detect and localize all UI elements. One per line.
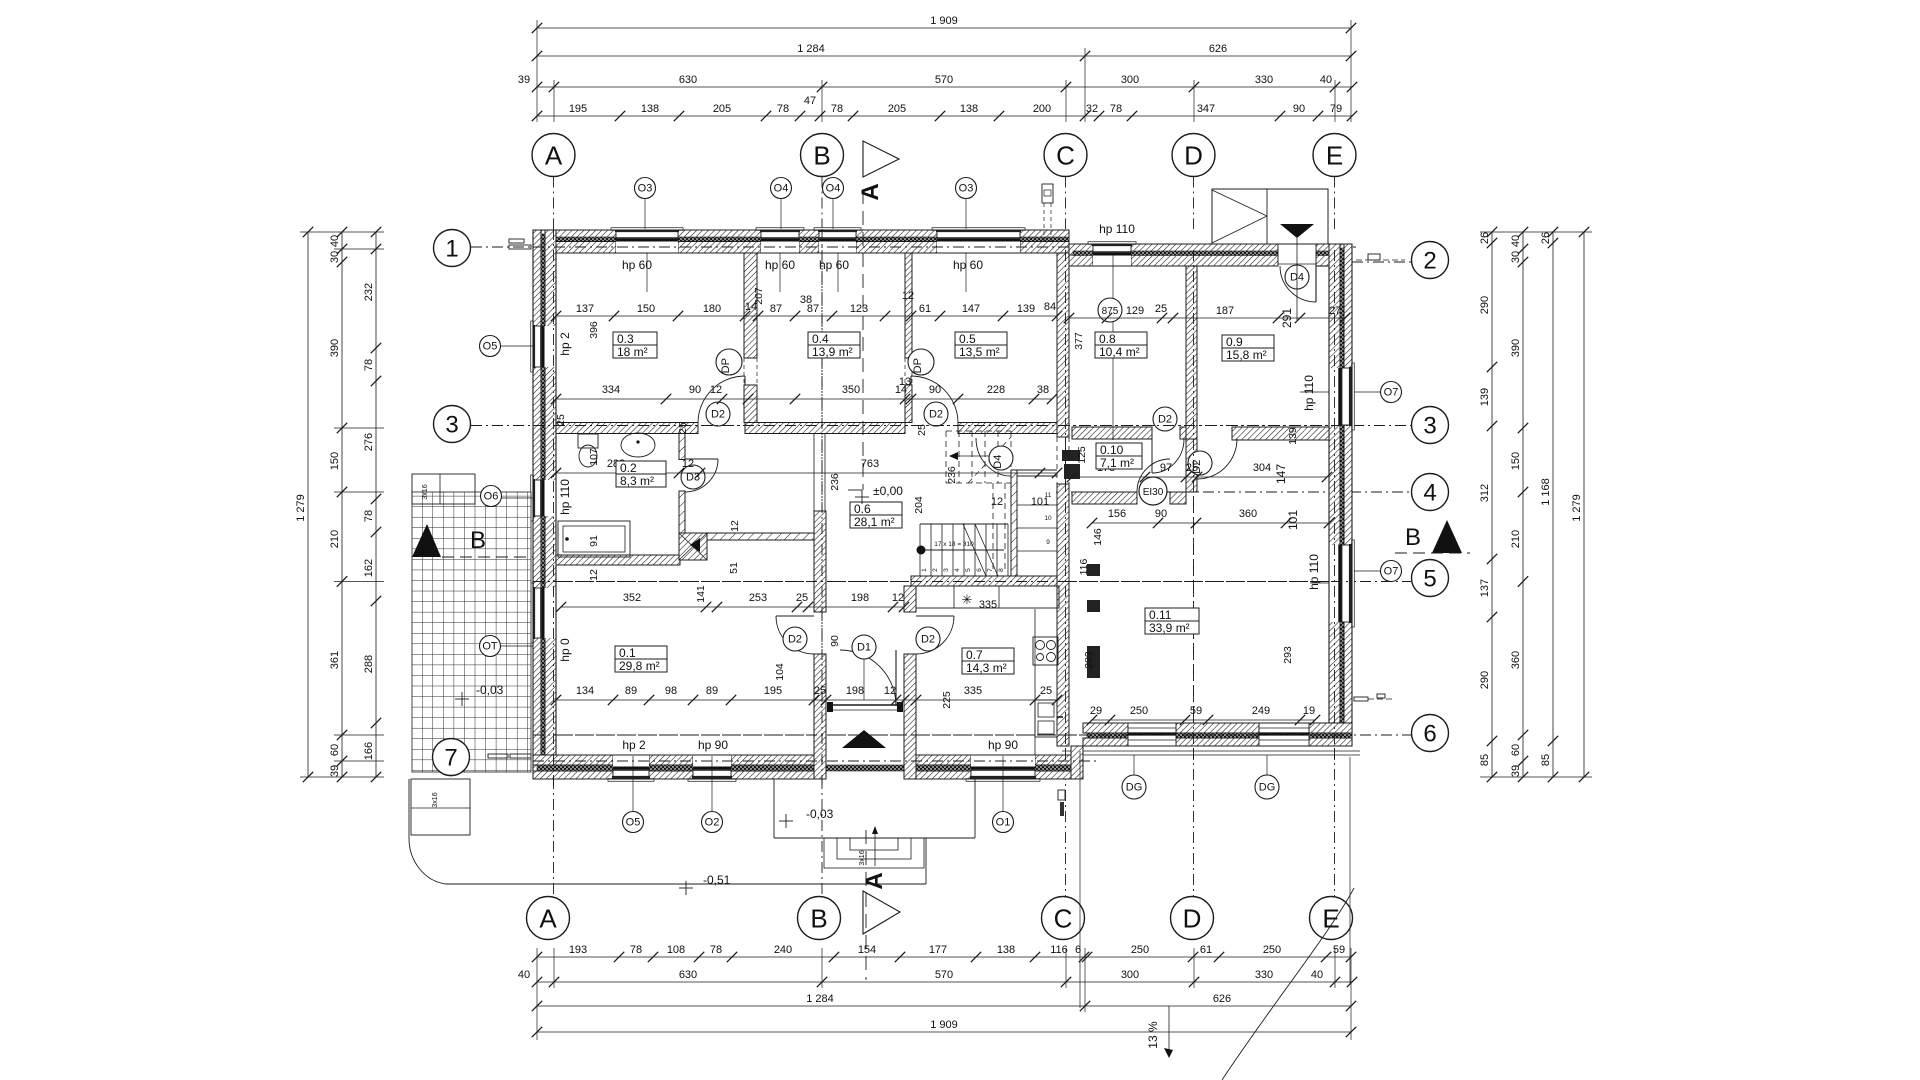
svg-text:198: 198 (846, 685, 864, 697)
exterior wall right (1329, 244, 1340, 746)
window label O2 bottom (702, 812, 723, 833)
corridor wall grid 3 (556, 423, 698, 434)
svg-text:-0,51: -0,51 (703, 873, 731, 887)
grid line 7 (470, 760, 1100, 762)
grid line 6 (520, 734, 1411, 736)
svg-text:5: 5 (965, 568, 972, 572)
svg-text:195: 195 (764, 685, 782, 697)
grid bubble 5 right (1412, 560, 1449, 597)
svg-text:18 m²: 18 m² (617, 345, 648, 359)
room 0.5 label (955, 332, 1007, 358)
svg-text:225: 225 (941, 691, 953, 709)
svg-text:78: 78 (831, 103, 843, 115)
door label D2 room 0.5 (924, 402, 948, 426)
grid line B (821, 253, 823, 896)
svg-text:137: 137 (1479, 579, 1491, 597)
door D2 room 0.5 leaf/swing (910, 376, 912, 422)
svg-text:360: 360 (1239, 508, 1257, 520)
boiler room 0.10 (1062, 450, 1080, 461)
svg-text:108: 108 (667, 944, 685, 956)
grid line D over (1193, 250, 1195, 760)
window label OT left (480, 636, 501, 657)
svg-text:D2: D2 (1158, 414, 1172, 426)
grid line 6 over (533, 734, 1352, 736)
svg-text:1 279: 1 279 (295, 494, 307, 522)
svg-text:98: 98 (665, 685, 677, 697)
svg-text:78: 78 (363, 359, 375, 371)
grid line D (1193, 265, 1195, 896)
svg-text:139: 139 (1017, 303, 1035, 315)
top dimension row total 1909 (537, 27, 1351, 29)
room 0.9 label (1222, 335, 1274, 361)
door D1 frame marks (827, 702, 833, 712)
section B marker right (1432, 520, 1462, 553)
svg-text:210: 210 (1510, 530, 1522, 548)
svg-text:3: 3 (1423, 413, 1436, 440)
vent marks top left corner (509, 239, 524, 243)
svg-text:291: 291 (1280, 308, 1294, 328)
svg-text:6: 6 (1423, 721, 1436, 748)
svg-text:90: 90 (1155, 508, 1167, 520)
svg-text:39: 39 (1510, 765, 1522, 777)
svg-text:123: 123 (850, 303, 868, 315)
room 0.2 label (616, 461, 666, 487)
svg-text:40: 40 (518, 969, 530, 981)
partition wall rooms 0.3/0.4 (744, 253, 757, 358)
svg-text:14,3 m²: 14,3 m² (966, 661, 1007, 675)
window label O6 left (481, 486, 502, 507)
svg-text:177: 177 (929, 944, 947, 956)
svg-text:352: 352 (623, 592, 641, 604)
exterior wall top A-C (533, 230, 616, 242)
svg-text:1: 1 (921, 568, 928, 572)
svg-text:0.3: 0.3 (617, 332, 634, 346)
grid line C stem (1065, 177, 1067, 230)
window label O1 bottom (993, 812, 1014, 833)
svg-text:205: 205 (713, 103, 731, 115)
svg-text:D: D (1183, 903, 1202, 933)
svg-text:198: 198 (851, 592, 869, 604)
svg-text:249: 249 (1252, 705, 1270, 717)
svg-text:3: 3 (445, 412, 458, 439)
room 0.10 label (1096, 443, 1142, 469)
svg-text:0.2: 0.2 (620, 461, 637, 475)
bathroom wall stub (679, 434, 685, 460)
svg-text:19: 19 (1303, 705, 1315, 717)
svg-text:101: 101 (1286, 510, 1300, 530)
room 0.3 label (613, 332, 657, 358)
svg-text:hp 110: hp 110 (558, 479, 572, 515)
svg-text:300: 300 (1121, 969, 1139, 981)
svg-text:90: 90 (689, 384, 701, 396)
door label D4 (1285, 265, 1309, 289)
svg-text:O5: O5 (483, 341, 498, 353)
svg-text:D1: D1 (857, 642, 871, 654)
svg-text:84: 84 (1044, 301, 1056, 313)
grid line 3 over (533, 425, 1352, 427)
terrace steps top (412, 474, 475, 504)
svg-text:250: 250 (1131, 944, 1149, 956)
door D2 room 0.9 leaf/swing (1196, 439, 1198, 479)
svg-text:0.11: 0.11 (1149, 608, 1172, 622)
window label O5 bottom (623, 812, 644, 833)
svg-text:33,9 m²: 33,9 m² (1149, 621, 1190, 635)
svg-text:0.5: 0.5 (959, 332, 976, 346)
svg-text:25: 25 (1186, 462, 1198, 474)
svg-text:334: 334 (602, 384, 620, 396)
svg-text:D4: D4 (992, 455, 1004, 469)
grid line 4 (1056, 491, 1411, 493)
svg-text:8: 8 (998, 568, 1005, 572)
grid line B stem (821, 177, 823, 230)
svg-text:A: A (857, 183, 884, 200)
door label D2 room 0.9 rotated (1188, 451, 1212, 475)
svg-text:195: 195 (569, 103, 587, 115)
svg-text:125: 125 (1076, 446, 1088, 464)
svg-text:6: 6 (976, 568, 983, 572)
grid line 1 over (533, 246, 1069, 248)
svg-text:570: 570 (935, 969, 953, 981)
door D1 leaf and swing (895, 650, 897, 706)
svg-text:hp 2: hp 2 (558, 332, 572, 356)
stairs lower flight (919, 524, 921, 576)
door label D2 hall kitchen (916, 627, 940, 651)
grid line A (553, 253, 555, 896)
svg-text:300: 300 (1121, 74, 1139, 86)
svg-text:25: 25 (677, 422, 689, 434)
exterior wall left (533, 230, 541, 779)
entrance arrow triangle (842, 730, 886, 748)
door D2 hall to room 0.1 leaf/swing (776, 615, 814, 617)
svg-text:59: 59 (1190, 705, 1202, 717)
svg-text:O7: O7 (1384, 566, 1399, 578)
svg-text:141: 141 (695, 585, 707, 603)
svg-text:10: 10 (1044, 515, 1052, 522)
door label EI30 (1139, 477, 1167, 505)
svg-text:1 168: 1 168 (1540, 478, 1552, 506)
section A marker top (862, 190, 864, 490)
door D2 room 0.3 leaf/swing (744, 376, 746, 422)
svg-text:139: 139 (1479, 388, 1491, 406)
svg-text:377: 377 (1073, 332, 1085, 350)
vent marks bottom left (488, 754, 508, 758)
svg-text:150: 150 (637, 303, 655, 315)
wall top of room 0.10 (1072, 427, 1152, 439)
svg-text:D: D (1184, 140, 1203, 170)
svg-text:116: 116 (1078, 558, 1090, 575)
grid line A stem (553, 177, 555, 230)
dim row hall stairs (561, 606, 904, 608)
svg-text:335: 335 (964, 685, 982, 697)
svg-text:12: 12 (682, 458, 694, 470)
bottom dimension row 40-630-570-300-330-40 (537, 981, 1352, 983)
svg-text:240: 240 (774, 944, 792, 956)
svg-text:89: 89 (706, 685, 718, 697)
door D4 leaf and swing (1315, 266, 1317, 302)
svg-text:276: 276 (363, 433, 375, 451)
svg-text:DG: DG (1126, 782, 1143, 794)
svg-text:40: 40 (1510, 235, 1522, 247)
window label O4 top (823, 178, 844, 199)
hall wall bottom stairs (911, 576, 1057, 586)
grid line E over (1334, 250, 1336, 760)
svg-text:12: 12 (588, 569, 600, 581)
svg-text:87: 87 (807, 303, 819, 315)
canopy outline (1212, 189, 1328, 244)
door label DG 1 (1133, 755, 1135, 775)
grid line B over (821, 229, 823, 790)
svg-text:61: 61 (919, 303, 931, 315)
svg-text:236: 236 (946, 466, 958, 484)
svg-text:25: 25 (1040, 685, 1052, 697)
svg-text:DP: DP (912, 358, 924, 373)
svg-text:7,1 m²: 7,1 m² (1100, 456, 1134, 470)
door label D2 hall left (783, 627, 807, 651)
grid line E stem (1334, 177, 1336, 230)
svg-text:187: 187 (1216, 305, 1234, 317)
svg-text:293: 293 (1282, 646, 1294, 664)
svg-text:D2: D2 (788, 634, 802, 646)
grid line E (1334, 265, 1336, 896)
svg-text:40: 40 (1320, 74, 1332, 86)
svg-text:630: 630 (679, 74, 697, 86)
svg-text:✳: ✳ (962, 592, 973, 607)
svg-text:40: 40 (1311, 969, 1323, 981)
svg-text:90: 90 (829, 635, 841, 647)
section B marker left (412, 524, 441, 557)
svg-text:O3: O3 (959, 183, 974, 195)
grid line C over (1065, 250, 1067, 760)
window axes top (646, 253, 648, 292)
svg-text:146: 146 (1092, 528, 1104, 546)
svg-text:139: 139 (1287, 427, 1299, 445)
svg-text:A: A (545, 140, 563, 170)
svg-text:630: 630 (679, 969, 697, 981)
svg-text:250: 250 (1263, 944, 1281, 956)
vestibule wall left (814, 654, 826, 779)
svg-text:26: 26 (1479, 232, 1491, 244)
svg-text:390: 390 (1510, 339, 1522, 357)
window axis top right (1112, 255, 1114, 440)
svg-text:207: 207 (753, 287, 765, 305)
svg-text:626: 626 (1213, 993, 1231, 1005)
svg-text:47: 47 (804, 95, 816, 107)
svg-text:101: 101 (1031, 496, 1049, 508)
porch slab outline (408, 779, 410, 838)
dim row top rooms right (1069, 317, 1345, 319)
svg-text:hp 2: hp 2 (622, 738, 646, 752)
grid line 3 (471, 425, 1411, 427)
svg-text:204: 204 (913, 496, 925, 514)
svg-text:147: 147 (962, 303, 980, 315)
grid bubble 2 right (1412, 242, 1449, 279)
grid line 7 over (533, 760, 1100, 762)
room 0.1 label (615, 646, 667, 672)
right dimension total 1279 (1583, 232, 1585, 777)
svg-text:hp 60: hp 60 (765, 258, 795, 272)
svg-text:61: 61 (1200, 944, 1212, 956)
svg-text:12: 12 (991, 496, 1003, 508)
svg-text:250: 250 (1130, 705, 1148, 717)
grid bubble C top (1044, 134, 1087, 177)
svg-text:312: 312 (1479, 484, 1491, 502)
svg-text:763: 763 (861, 458, 879, 470)
door D2 hall to kitchen leaf/swing (916, 615, 954, 617)
svg-text:12: 12 (710, 384, 722, 396)
grid bubble 1 left (434, 230, 471, 267)
grid bubble E top (1313, 134, 1356, 177)
svg-text:hp 90: hp 90 (988, 738, 1018, 752)
svg-text:89: 89 (625, 685, 637, 697)
washbasin (621, 433, 655, 457)
grid bubble B top (801, 134, 844, 177)
svg-text:1 909: 1 909 (930, 15, 958, 27)
door D4 stair landing swing (976, 438, 1011, 476)
door label D3 (681, 465, 705, 489)
svg-text:162: 162 (363, 559, 375, 577)
exterior wall top right section (1069, 244, 1093, 255)
exterior wall bottom right section (1083, 723, 1128, 733)
svg-text:129: 129 (1126, 305, 1144, 317)
svg-text:138: 138 (960, 103, 978, 115)
svg-text:0.4: 0.4 (812, 332, 829, 346)
svg-text:O1: O1 (996, 817, 1011, 829)
svg-text:107: 107 (588, 448, 600, 466)
svg-text:15,8 m²: 15,8 m² (1226, 348, 1267, 362)
svg-text:335: 335 (979, 599, 997, 611)
svg-text:O2: O2 (705, 817, 720, 829)
svg-text:288: 288 (363, 655, 375, 673)
top dimension row 1284/626 (537, 55, 1351, 57)
svg-text:hp 110: hp 110 (1307, 554, 1321, 590)
toilet (578, 434, 598, 448)
svg-text:1 284: 1 284 (797, 43, 825, 55)
svg-text:E: E (1326, 140, 1343, 170)
left dimension chain inner (375, 232, 377, 777)
grid bubble 3 left (434, 406, 471, 443)
stair landing wall (1017, 469, 1057, 471)
svg-text:138: 138 (641, 103, 659, 115)
bathroom door D3 leaf/swing (685, 458, 718, 460)
svg-text:13: 13 (899, 376, 911, 388)
svg-text:150: 150 (329, 452, 341, 470)
svg-text:30: 30 (329, 251, 341, 263)
svg-text:hp 110: hp 110 (1302, 375, 1316, 411)
svg-text:290: 290 (1479, 296, 1491, 314)
dim row corridor (556, 472, 1057, 474)
top dimension extension lines (536, 20, 538, 122)
room 0.7 label (962, 648, 1014, 674)
svg-text:154: 154 (858, 944, 876, 956)
grid line D stem (1193, 177, 1195, 230)
svg-text:0.6: 0.6 (854, 502, 871, 516)
svg-text:90: 90 (1293, 103, 1305, 115)
top dimension row 39-630-570-300-330-40 (537, 86, 1352, 88)
svg-text:396: 396 (588, 321, 600, 339)
svg-text:134: 134 (576, 685, 594, 697)
svg-text:193: 193 (569, 944, 587, 956)
svg-text:EI30: EI30 (1143, 487, 1164, 498)
svg-text:hp 110: hp 110 (1099, 222, 1135, 236)
grid bubble 7 left (433, 739, 470, 776)
dim row garage top (1092, 522, 1329, 524)
dim row under top rooms (556, 398, 1052, 400)
svg-text:32: 32 (1086, 103, 1098, 115)
svg-text:hp 60: hp 60 (622, 258, 652, 272)
svg-text:C: C (1056, 140, 1075, 170)
svg-text:25: 25 (814, 685, 826, 697)
dim row room 0.1 (556, 699, 1057, 701)
svg-text:253: 253 (749, 592, 767, 604)
svg-text:25: 25 (796, 592, 808, 604)
svg-text:3: 3 (943, 568, 950, 572)
grid bubble D top (1172, 134, 1215, 177)
svg-text:147: 147 (1274, 464, 1288, 484)
svg-text:79: 79 (1330, 103, 1342, 115)
svg-text:1 909: 1 909 (930, 1019, 958, 1031)
svg-text:27: 27 (1329, 305, 1341, 317)
stair wall thin (1011, 470, 1017, 576)
vent mark right top (1356, 259, 1405, 261)
svg-text:D2: D2 (929, 409, 943, 421)
svg-text:13,9 m²: 13,9 m² (812, 345, 853, 359)
svg-text:O4: O4 (826, 183, 841, 195)
svg-text:A: A (861, 872, 888, 889)
svg-text:283: 283 (1083, 651, 1095, 669)
svg-text:hp 60: hp 60 (819, 258, 849, 272)
svg-text:3x16: 3x16 (422, 484, 429, 499)
svg-text:361: 361 (329, 651, 341, 669)
svg-text:±0,00: ±0,00 (873, 484, 903, 498)
svg-text:210: 210 (329, 530, 341, 548)
door EI30 swing (1137, 459, 1170, 492)
svg-text:0.1: 0.1 (619, 646, 636, 660)
svg-text:87: 87 (770, 303, 782, 315)
svg-text:78: 78 (710, 944, 722, 956)
svg-text:78: 78 (1110, 103, 1122, 115)
svg-text:39: 39 (329, 765, 341, 777)
driveway curve (1222, 888, 1354, 1080)
door label D1 (852, 635, 876, 659)
svg-text:4: 4 (954, 568, 961, 572)
grid line 2 (1352, 261, 1411, 263)
door label DG 2 (1266, 755, 1268, 775)
dim row top rooms (556, 315, 1057, 317)
grid bubble 6 right (1412, 715, 1449, 752)
svg-text:228: 228 (987, 384, 1005, 396)
svg-text:166: 166 (363, 742, 375, 760)
svg-text:205: 205 (888, 103, 906, 115)
svg-text:12: 12 (884, 685, 896, 697)
grid line 1 (471, 246, 1356, 248)
svg-text:B: B (1405, 524, 1421, 551)
svg-text:304: 304 (1253, 462, 1271, 474)
svg-text:200: 200 (1033, 103, 1051, 115)
svg-text:0.8: 0.8 (1099, 332, 1116, 346)
stairs upper flight dashed (946, 430, 1011, 432)
svg-text:E: E (1322, 903, 1339, 933)
svg-text:5: 5 (1423, 566, 1436, 593)
svg-text:137: 137 (576, 303, 594, 315)
svg-text:DP: DP (720, 358, 732, 373)
kitchen counter right (1034, 609, 1036, 755)
svg-text:29,8 m²: 29,8 m² (619, 659, 660, 673)
grid line C (1065, 265, 1067, 896)
svg-text:360: 360 (1510, 651, 1522, 669)
dim row garage bottom (1092, 719, 1315, 721)
svg-text:40: 40 (329, 235, 341, 247)
svg-text:38: 38 (1037, 384, 1049, 396)
